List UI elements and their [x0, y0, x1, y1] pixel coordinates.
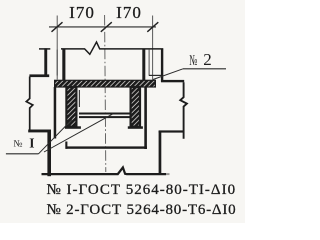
right lower column wall: [159, 131, 162, 175]
label No.2 leader to plate: [153, 69, 183, 80]
right inner step line: [149, 74, 161, 76]
bottom edge fading tail: [166, 173, 170, 175]
upper column right web wall: [142, 49, 145, 80]
label No.2 leader underline: [183, 68, 226, 70]
box bottom-left corner riser: [65, 142, 67, 149]
top edge of upper column, left cap segment: [39, 48, 50, 50]
dimension line (top): [49, 26, 156, 28]
right lower step flange: [159, 130, 185, 132]
svg-text:№ I-ГОСТ 5264-80-ТI-ΔI0: № I-ГОСТ 5264-80-ТI-ΔI0: [47, 182, 237, 198]
left lower column wall: [47, 131, 51, 176]
upper column left inner thin wall: [56, 50, 58, 76]
plate No.2 (hatched horizontal plate): [55, 80, 156, 87]
label No.1 leader to left rib: [39, 120, 73, 154]
left rib extra wall line: [78, 90, 80, 107]
left step flange: [29, 74, 49, 77]
box left wall: [54, 87, 57, 139]
left rib foot: [65, 126, 81, 129]
left lower step flange: [28, 130, 51, 133]
label No.1 leader underline: [6, 153, 39, 155]
upper column left outer flange wall: [44, 48, 47, 76]
box right wall: [144, 87, 147, 149]
right arm wall with break symbol: [180, 82, 187, 139]
dimension tick left: [52, 22, 63, 32]
web plate upper line: [79, 113, 130, 115]
left rib bar (hatched): [66, 87, 76, 127]
svg-text:№: №: [189, 53, 197, 69]
extension line right: [152, 16, 154, 80]
upper column right inner thin wall: [148, 50, 150, 76]
upper column right outer flange wall: [161, 49, 163, 82]
label No.1 leader to web: [44, 114, 113, 152]
svg-text:№ 2-ГОСТ 5264-80-Т6-ΔI0: № 2-ГОСТ 5264-80-Т6-ΔI0: [47, 202, 237, 218]
right rib bar (hatched): [131, 87, 140, 127]
extension line left: [56, 16, 58, 80]
top edge of upper column with break symbol: [61, 42, 163, 54]
box bottom line: [66, 146, 148, 148]
upper column left web wall: [62, 49, 65, 80]
web plate lower line: [79, 116, 130, 118]
svg-text:I: I: [29, 136, 34, 151]
bottom edge line with break symbol: [42, 167, 167, 174]
right rib foot: [128, 126, 143, 129]
svg-text:№: №: [13, 140, 22, 150]
dimension tick right: [147, 22, 158, 32]
svg-text:2: 2: [203, 50, 212, 69]
left arm wall with break symbol: [26, 77, 33, 131]
svg-text:I70: I70: [69, 3, 95, 22]
svg-text:I70: I70: [116, 3, 142, 22]
paper background: [0, 0, 245, 223]
dimension tick middle: [101, 22, 112, 32]
column centerline (dash-dot axis): [105, 15, 106, 172]
right outer step flange: [161, 80, 184, 82]
